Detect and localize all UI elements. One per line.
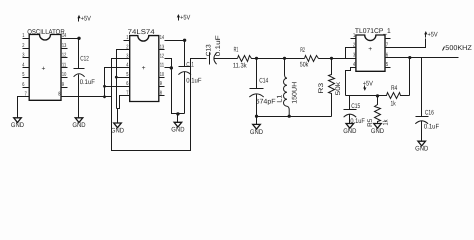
- svg-text:GND: GND: [371, 128, 384, 135]
- capacitor C14 674pF: [249, 59, 275, 117]
- svg-text:674pF: 674pF: [256, 99, 276, 106]
- svg-text:0.1uF: 0.1uF: [424, 123, 439, 130]
- svg-text:500KHZ: 500KHZ: [445, 45, 472, 52]
- svg-text:10: 10: [160, 72, 164, 78]
- svg-text:R5: R5: [367, 118, 374, 126]
- node: R4 feedback tap: [408, 56, 411, 59]
- svg-text:C12: C12: [80, 55, 89, 62]
- svg-text:150UH: 150UH: [292, 82, 299, 104]
- IC U1 OSCILLATOR (DIP-14): [22, 29, 67, 100]
- svg-text:+: +: [142, 65, 146, 72]
- svg-text:11.3k: 11.3k: [233, 62, 247, 69]
- resistor R1 11.3k: [233, 47, 257, 70]
- svg-text:1: 1: [353, 33, 355, 39]
- wire: 74LS74 pin 6 joins pin4 vertical: [105, 86, 130, 88]
- svg-text:C13: C13: [205, 44, 212, 56]
- wire: 74LS74 pin 11 to ground leg: [165, 68, 185, 114]
- svg-text:1k: 1k: [391, 101, 397, 108]
- svg-text:14: 14: [62, 33, 66, 39]
- power +5V (74LS74): [177, 14, 191, 22]
- svg-text:+5V: +5V: [428, 32, 439, 39]
- svg-text:9: 9: [160, 81, 162, 87]
- svg-text:+5V: +5V: [180, 15, 191, 22]
- ground GND (74LS74): [111, 123, 124, 134]
- svg-text:4: 4: [22, 62, 24, 68]
- svg-text:50k: 50k: [300, 61, 309, 68]
- power +5V (oscillator): [77, 15, 91, 23]
- svg-text:R4: R4: [391, 85, 397, 92]
- wire: TL071 pin 4 jog down to +5V rail: [346, 68, 356, 96]
- svg-text:5: 5: [22, 72, 24, 78]
- svg-text:11: 11: [160, 63, 164, 69]
- svg-text:13: 13: [62, 43, 66, 49]
- wire: drop to GND (C14): [256, 117, 258, 125]
- wire: feedback riser to R4: [409, 58, 411, 96]
- svg-text:0.1uF: 0.1uF: [80, 79, 95, 86]
- node: +5V / C11 junction: [183, 39, 186, 42]
- svg-text:+: +: [368, 46, 372, 53]
- inductor L1 150UH: [277, 58, 299, 116]
- svg-text:GND: GND: [72, 122, 85, 129]
- svg-text:8: 8: [160, 90, 162, 96]
- ground GND (C11/pin11): [171, 122, 184, 133]
- IC U3 TL071CP_1 (DIP-8): [351, 28, 391, 72]
- svg-text:8: 8: [58, 91, 60, 97]
- svg-text:50k: 50k: [335, 81, 342, 95]
- svg-text:9: 9: [62, 82, 64, 88]
- svg-text:1: 1: [22, 33, 24, 39]
- svg-text:GND: GND: [171, 127, 184, 134]
- wire: TL071 pin 2 to signal: [346, 48, 356, 59]
- svg-text:R1: R1: [234, 47, 239, 54]
- ground GND (R5): [371, 124, 384, 135]
- resistor R3 50k (vertical): [318, 59, 342, 117]
- svg-text:+: +: [42, 65, 46, 72]
- svg-text:R3: R3: [318, 82, 325, 93]
- wire: 74LS74 pin 14 to +5V node: [165, 40, 185, 42]
- net label 500KHZ: [443, 47, 445, 51]
- node: ground U junction: [176, 112, 179, 115]
- svg-text:C14: C14: [259, 77, 268, 84]
- svg-text:2: 2: [22, 43, 24, 49]
- svg-text:0.1uF: 0.1uF: [215, 35, 222, 56]
- svg-text:13: 13: [160, 44, 164, 50]
- wire: drop to GND under 74LS74: [117, 109, 119, 123]
- ground GND (C14): [250, 124, 263, 135]
- wire: 74LS74 pin 7 to ground: [117, 96, 130, 109]
- capacitor C15 0.1uF: [344, 96, 365, 126]
- capacitor C16 0.1uF: [415, 58, 439, 142]
- svg-text:C11: C11: [186, 61, 194, 68]
- svg-text:1k: 1k: [382, 119, 389, 126]
- node: R5 pot tap on rail: [376, 94, 379, 97]
- wire: OSC pin 14 to +5V node: [68, 38, 79, 40]
- wire: ground bus C14-L1-R3: [257, 116, 332, 118]
- svg-text:GND: GND: [11, 122, 24, 129]
- node: +5V / C12 junction: [77, 37, 80, 40]
- svg-text:3: 3: [353, 52, 355, 58]
- svg-text:12: 12: [160, 54, 164, 60]
- svg-text:0.1uF: 0.1uF: [186, 77, 201, 84]
- node: pin4/6 vertical joins pin-8 wire: [103, 95, 106, 98]
- svg-text:12: 12: [62, 53, 66, 59]
- wire: TL071 pin 7 to +5V: [385, 39, 426, 48]
- wire: drop to GND (C11): [177, 114, 179, 123]
- svg-text:C15: C15: [351, 103, 360, 110]
- svg-text:GND: GND: [343, 128, 356, 135]
- svg-text:C16: C16: [425, 110, 434, 117]
- svg-text:TL071CP_1: TL071CP_1: [355, 28, 391, 35]
- wire: 74LS74 pin 2 down to ground rail: [117, 50, 130, 109]
- svg-text:11: 11: [62, 62, 66, 68]
- wire: R2 to TL071 pin 3: [319, 58, 356, 60]
- svg-text:+5V: +5V: [81, 15, 92, 22]
- IC U2 74LS74 (DIP-14): [124, 29, 165, 101]
- ground GND (C15): [343, 124, 356, 135]
- node: L1 tap: [283, 57, 286, 60]
- resistor R4 1k: [346, 85, 410, 108]
- ground GND (C16): [415, 141, 428, 152]
- wire: OSC pin 7 to ground: [18, 97, 30, 118]
- capacitor C13 0.1uF (series): [205, 35, 237, 64]
- capacitor C12 0.1uF: [74, 39, 95, 118]
- wire: 74LS74 pin 12 jog down to pin 11: [165, 59, 172, 68]
- node: L1 / GND bus junction: [288, 115, 291, 118]
- capacitor C11 0.1uF: [178, 41, 201, 114]
- node: C14 / GND bus junction: [255, 115, 258, 118]
- svg-text:GND: GND: [111, 127, 124, 134]
- wire: 74LS74 pin 3 clock feed + feedback loop around bottom: [112, 59, 207, 151]
- wire: R1 to R2: [257, 58, 305, 60]
- potentiometer R5 (vertical with wiper arrow): [367, 96, 390, 127]
- wire: TL071 pin 6 output: [385, 57, 459, 59]
- wire: OSC pin 8 across to clock net: [61, 96, 112, 98]
- svg-text:GND: GND: [250, 129, 263, 136]
- svg-text:GND: GND: [415, 146, 428, 153]
- node: R3 tap: [330, 57, 333, 60]
- resistor R2 50k: [300, 47, 319, 68]
- svg-text:14: 14: [160, 35, 164, 41]
- svg-text:R2: R2: [300, 47, 305, 54]
- svg-text:1: 1: [126, 35, 128, 41]
- svg-text:L1: L1: [277, 95, 284, 103]
- ground GND (OSC pin7): [11, 118, 24, 129]
- svg-text:5: 5: [386, 62, 388, 68]
- power +5V (lower rail, arrow down): [363, 80, 374, 91]
- node: C14 tap: [255, 57, 258, 60]
- wire: 74LS74 pin 5 joins pin2 vertical: [117, 77, 130, 79]
- svg-text:10: 10: [62, 72, 66, 78]
- svg-text:6: 6: [22, 82, 24, 88]
- svg-text:3: 3: [22, 53, 24, 59]
- power +5V (TL071 V+): [424, 31, 438, 39]
- wire: 74LS74 pin 4 to osc pin8 net: [105, 68, 130, 97]
- ground GND (C12): [72, 118, 85, 129]
